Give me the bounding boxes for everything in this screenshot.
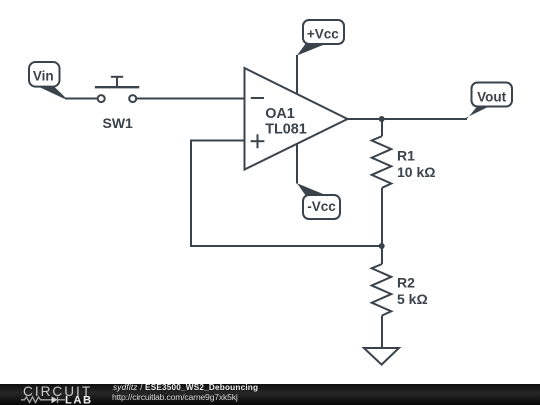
op-amp OA1 TL081	[245, 68, 348, 170]
node junction feedback/R2	[379, 243, 385, 249]
svg-text:R1: R1	[397, 148, 415, 164]
svg-text:5 kΩ: 5 kΩ	[397, 291, 428, 307]
wire R1 to feedback node	[381, 188, 383, 246]
svg-text:LAB: LAB	[65, 395, 93, 405]
node junction output/R1	[379, 116, 385, 122]
net label Vin	[29, 62, 67, 99]
pushbutton SW1	[95, 77, 139, 131]
resistor R1	[372, 136, 436, 188]
wire R2 to ground	[381, 316, 383, 349]
wire +Vcc supply	[296, 55, 298, 94]
footer bar	[0, 384, 540, 405]
ground	[364, 348, 399, 365]
footer credit text	[113, 383, 258, 401]
wire SW1 to op-amp inverting input	[136, 98, 245, 100]
svg-text:R2: R2	[397, 275, 415, 291]
wire -Vcc supply	[296, 143, 298, 184]
svg-text:Vin: Vin	[33, 68, 54, 83]
svg-text:+Vcc: +Vcc	[307, 26, 339, 41]
resistor R2	[372, 246, 428, 316]
CircuitLab logo	[20, 384, 104, 405]
net label Vout	[466, 83, 512, 120]
svg-text:10 kΩ: 10 kΩ	[397, 164, 435, 180]
svg-text:-Vcc: -Vcc	[307, 199, 336, 214]
svg-text:SW1: SW1	[103, 115, 134, 131]
svg-text:TL081: TL081	[265, 122, 307, 138]
svg-text:Vout: Vout	[477, 89, 506, 104]
net label +Vcc	[297, 20, 344, 56]
wire Vin to SW1	[65, 98, 98, 100]
wire op-amp output to Vout	[348, 118, 468, 120]
svg-text:OA1: OA1	[265, 106, 295, 122]
wire feedback to non-inverting input	[191, 141, 382, 247]
wire output node to R1	[381, 119, 383, 136]
net label -Vcc	[297, 183, 340, 219]
